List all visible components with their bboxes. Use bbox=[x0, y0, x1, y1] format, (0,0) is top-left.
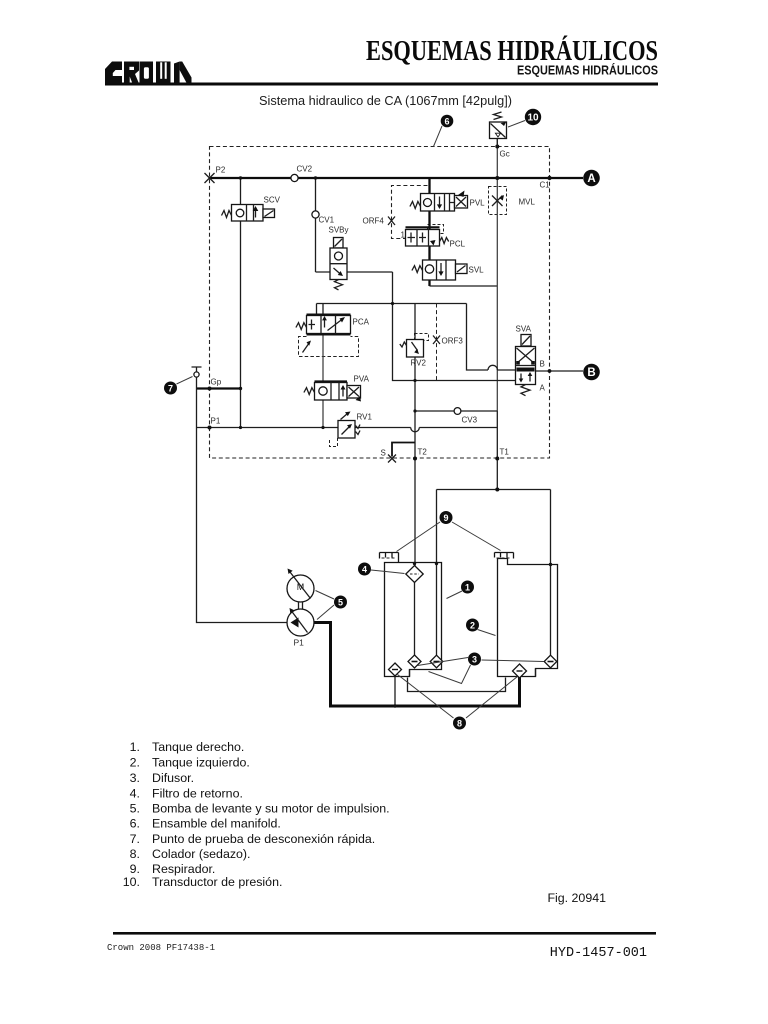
svg-text:Punto de prueba de desconexión: Punto de prueba de desconexión rápida. bbox=[152, 832, 375, 846]
svg-text:CV3: CV3 bbox=[462, 416, 478, 425]
svg-text:6: 6 bbox=[444, 116, 449, 126]
svg-text:HYD-1457-001: HYD-1457-001 bbox=[550, 946, 647, 961]
svg-text:2.: 2. bbox=[130, 756, 140, 770]
svg-text:4: 4 bbox=[362, 564, 367, 574]
svg-text:SCV: SCV bbox=[264, 196, 281, 205]
svg-text:1: 1 bbox=[401, 231, 406, 240]
svg-text:9: 9 bbox=[443, 513, 448, 523]
svg-text:ESQUEMAS HIDRÁULICOS: ESQUEMAS HIDRÁULICOS bbox=[517, 63, 658, 78]
svg-text:SVBy: SVBy bbox=[329, 226, 349, 235]
svg-text:A: A bbox=[587, 173, 595, 185]
svg-text:ORF3: ORF3 bbox=[442, 337, 464, 346]
svg-text:B: B bbox=[587, 367, 595, 379]
svg-text:RV2: RV2 bbox=[411, 359, 427, 368]
svg-text:SVA: SVA bbox=[516, 325, 532, 334]
svg-text:Sistema hidraulico de CA (1067: Sistema hidraulico de CA (1067mm [42pulg… bbox=[259, 94, 512, 108]
svg-text:B: B bbox=[540, 360, 545, 369]
svg-text:Fig. 20941: Fig. 20941 bbox=[547, 891, 606, 905]
svg-text:Bomba de levante y su motor de: Bomba de levante y su motor de impulsion… bbox=[152, 802, 390, 816]
svg-text:P2: P2 bbox=[216, 166, 226, 175]
svg-text:7: 7 bbox=[168, 383, 173, 393]
svg-text:CV1: CV1 bbox=[319, 216, 335, 225]
svg-text:1: 1 bbox=[465, 582, 470, 592]
svg-text:Ensamble del manifold.: Ensamble del manifold. bbox=[152, 817, 281, 831]
svg-text:9.: 9. bbox=[130, 862, 140, 876]
svg-text:7.: 7. bbox=[130, 832, 140, 846]
svg-text:M: M bbox=[297, 582, 305, 592]
svg-text:SVL: SVL bbox=[469, 266, 485, 275]
svg-text:5.: 5. bbox=[130, 802, 140, 816]
svg-text:10.: 10. bbox=[123, 875, 140, 889]
svg-text:Gc: Gc bbox=[500, 150, 510, 159]
svg-text:P1: P1 bbox=[211, 417, 221, 426]
svg-text:8: 8 bbox=[457, 718, 462, 728]
svg-text:PCL: PCL bbox=[450, 240, 466, 249]
svg-text:3: 3 bbox=[472, 654, 477, 664]
svg-text:Difusor.: Difusor. bbox=[152, 771, 194, 785]
svg-text:ORF4: ORF4 bbox=[363, 217, 385, 226]
svg-text:Tanque derecho.: Tanque derecho. bbox=[152, 740, 244, 754]
svg-text:6.: 6. bbox=[130, 817, 140, 831]
svg-text:Gp: Gp bbox=[211, 378, 222, 387]
svg-text:P1: P1 bbox=[294, 638, 305, 648]
svg-text:Crown 2008 PF17438-1: Crown 2008 PF17438-1 bbox=[107, 943, 215, 953]
svg-text:Respirador.: Respirador. bbox=[152, 862, 215, 876]
svg-text:Filtro de retorno.: Filtro de retorno. bbox=[152, 787, 243, 801]
svg-text:A: A bbox=[540, 384, 546, 393]
svg-text:RV1: RV1 bbox=[357, 413, 373, 422]
svg-text:10: 10 bbox=[527, 113, 539, 124]
svg-text:PCA: PCA bbox=[353, 318, 370, 327]
svg-text:PVA: PVA bbox=[354, 375, 370, 384]
svg-text:C1: C1 bbox=[540, 181, 551, 190]
svg-text:CV2: CV2 bbox=[297, 165, 313, 174]
svg-text:T1: T1 bbox=[500, 448, 510, 457]
svg-text:1.: 1. bbox=[130, 740, 140, 754]
svg-text:MVL: MVL bbox=[519, 198, 536, 207]
svg-text:Colador (sedazo).: Colador (sedazo). bbox=[152, 847, 250, 861]
svg-text:PVL: PVL bbox=[470, 199, 486, 208]
svg-text:8.: 8. bbox=[130, 847, 140, 861]
svg-text:5: 5 bbox=[338, 597, 343, 607]
svg-text:2: 2 bbox=[470, 620, 475, 630]
svg-text:3.: 3. bbox=[130, 771, 140, 785]
svg-text:Tanque izquierdo.: Tanque izquierdo. bbox=[152, 756, 250, 770]
svg-text:S: S bbox=[381, 449, 386, 458]
svg-text:4.: 4. bbox=[130, 787, 140, 801]
svg-text:T2: T2 bbox=[418, 448, 428, 457]
svg-text:Transductor de presión.: Transductor de presión. bbox=[152, 875, 282, 889]
